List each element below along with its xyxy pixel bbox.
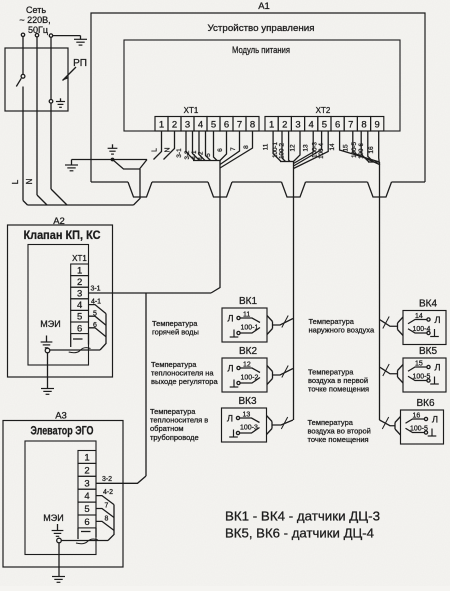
svg-text:L: L [152, 148, 159, 152]
svg-text:15: 15 [342, 144, 349, 152]
svg-text:4: 4 [77, 300, 82, 311]
svg-text:4: 4 [309, 119, 314, 130]
svg-text:точке помещения: точке помещения [308, 385, 369, 394]
svg-text:5: 5 [322, 119, 327, 130]
svg-text:МЭИ: МЭИ [40, 319, 60, 329]
svg-text:N: N [25, 178, 34, 184]
svg-text:6: 6 [93, 322, 97, 329]
svg-text:Л: Л [227, 314, 233, 325]
svg-text:Л: Л [432, 415, 438, 426]
svg-text:8: 8 [361, 119, 366, 130]
svg-text:3: 3 [295, 119, 300, 130]
svg-text:ВК5: ВК5 [419, 346, 437, 357]
svg-text:7: 7 [237, 119, 242, 130]
svg-text:А2: А2 [53, 216, 65, 227]
svg-text:2: 2 [282, 119, 287, 130]
svg-text:2: 2 [77, 277, 82, 288]
svg-text:1: 1 [159, 119, 164, 130]
svg-text:ВК2: ВК2 [239, 346, 257, 357]
svg-text:ВК6: ВК6 [416, 398, 434, 409]
svg-text:4: 4 [198, 119, 203, 130]
svg-text:L: L [11, 179, 20, 184]
svg-text:ВК1: ВК1 [239, 296, 257, 307]
svg-text:выходе регулятора: выходе регулятора [151, 377, 218, 386]
svg-text:МЭИ: МЭИ [43, 513, 63, 523]
svg-text:Л: Л [434, 315, 440, 326]
svg-text:ХТ2: ХТ2 [316, 106, 331, 115]
svg-text:4-2: 4-2 [103, 489, 113, 496]
svg-text:3: 3 [185, 119, 190, 130]
svg-text:6: 6 [77, 323, 82, 334]
svg-text:5: 5 [93, 311, 97, 318]
svg-text:4-1: 4-1 [91, 299, 101, 306]
svg-text:горячей воды: горячей воды [152, 328, 199, 337]
svg-text:100-6: 100-6 [358, 143, 365, 159]
svg-text:4-2: 4-2 [197, 151, 204, 161]
svg-text:1: 1 [269, 119, 274, 130]
svg-text:Л: Л [227, 414, 233, 425]
svg-text:А1: А1 [258, 1, 270, 12]
svg-text:ВК3: ВК3 [238, 396, 256, 407]
svg-text:ВК1 - ВК4 - датчики ДЦ-3: ВК1 - ВК4 - датчики ДЦ-3 [225, 510, 380, 524]
svg-text:6: 6 [217, 148, 224, 152]
svg-text:7: 7 [230, 147, 237, 151]
svg-text:3-1: 3-1 [90, 286, 100, 293]
svg-text:5: 5 [77, 312, 82, 323]
svg-text:6: 6 [224, 119, 229, 130]
svg-text:8: 8 [243, 145, 250, 149]
svg-text:ВК4: ВК4 [419, 299, 437, 310]
svg-text:ВК5, ВК6 - датчики ДЦ-4: ВК5, ВК6 - датчики ДЦ-4 [225, 527, 374, 541]
svg-text:3: 3 [77, 289, 82, 300]
svg-text:7: 7 [105, 503, 109, 510]
svg-text:16: 16 [368, 146, 375, 154]
svg-text:Л: Л [227, 364, 233, 375]
svg-text:2: 2 [172, 119, 177, 130]
svg-text:5: 5 [211, 119, 216, 130]
svg-text:4: 4 [84, 491, 89, 502]
svg-text:точке помещения: точке помещения [308, 435, 369, 444]
svg-text:Клапан КП, КС: Клапан КП, КС [24, 228, 101, 242]
svg-text:13: 13 [303, 144, 310, 152]
svg-text:8: 8 [250, 119, 255, 130]
svg-text:12: 12 [290, 144, 297, 152]
svg-text:100-2: 100-2 [279, 143, 286, 159]
svg-text:9: 9 [375, 119, 380, 130]
svg-text:~ 220В,: ~ 220В, [19, 15, 50, 25]
svg-text:8: 8 [105, 516, 109, 523]
svg-text:6: 6 [84, 517, 89, 528]
svg-text:3-1: 3-1 [176, 148, 183, 158]
svg-text:Элеватор ЭГО: Элеватор ЭГО [31, 424, 94, 438]
svg-text:7: 7 [348, 119, 353, 130]
svg-text:ХТ1: ХТ1 [184, 106, 199, 115]
svg-text:1: 1 [77, 265, 82, 276]
svg-text:5: 5 [84, 504, 89, 515]
svg-text:5: 5 [205, 153, 212, 157]
svg-text:ХТ1: ХТ1 [72, 254, 87, 263]
svg-text:100-4: 100-4 [318, 143, 325, 159]
svg-text:Модуль питания: Модуль питания [232, 45, 290, 55]
svg-text:Устройство управления: Устройство управления [208, 23, 315, 33]
svg-text:3-2: 3-2 [102, 476, 112, 483]
svg-text:14: 14 [329, 143, 336, 151]
svg-text:N: N [165, 147, 172, 152]
svg-text:трубопроводе: трубопроводе [150, 433, 199, 442]
svg-text:6: 6 [335, 119, 340, 130]
svg-text:3: 3 [84, 478, 89, 489]
svg-text:наружного воздуха: наружного воздуха [309, 326, 375, 335]
svg-text:А3: А3 [55, 411, 67, 422]
svg-text:Л: Л [434, 363, 440, 374]
svg-text:1: 1 [84, 453, 89, 464]
svg-text:11: 11 [263, 143, 270, 150]
svg-text:2: 2 [84, 465, 89, 476]
svg-text:Сеть: Сеть [26, 5, 46, 15]
